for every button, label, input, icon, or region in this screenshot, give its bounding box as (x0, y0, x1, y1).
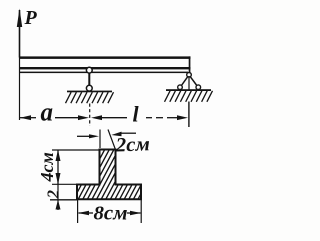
right support triangle (180, 77, 198, 88)
beam middle line (19, 67, 191, 69)
left support lower pin circle (86, 85, 92, 91)
stem width dim 2cm: left arrow (77, 135, 91, 137)
flange width dim 8cm: extension lines (77, 200, 79, 223)
beam right end edge (189, 56, 191, 74)
flange thickness dim 2: lower outside arrow (57, 199, 59, 210)
height dim 4cm: dimension line with arrows (57, 150, 59, 184)
stem width dim 2cm: right arrow (121, 132, 136, 134)
right support centre extension line (188, 76, 190, 91)
left support ground hatching (66, 92, 114, 103)
flange thickness dim 2: dimension line (57, 185, 59, 200)
svg-text:2см: 2см (114, 133, 150, 156)
svg-text:4см: 4см (37, 152, 57, 182)
mid extension line (under left support, dashed) (89, 104, 91, 127)
left support pin circle (86, 67, 92, 73)
svg-text:2: 2 (44, 190, 63, 199)
stem width dim 2cm: left extension line (99, 130, 101, 149)
svg-text:P: P (24, 7, 38, 29)
left support ground line (67, 91, 112, 93)
force P arrow (17, 9, 22, 58)
right support ground line (166, 89, 211, 91)
svg-text:l: l (133, 102, 140, 127)
dimension l: line and arrows (99, 117, 178, 119)
svg-text:a: a (41, 98, 54, 127)
stem width dim 2cm: slanted right extension line (108, 130, 116, 151)
right support roller circles (178, 85, 183, 90)
right support ground hatching (165, 91, 213, 102)
dimension a: line and arrows (20, 117, 79, 119)
left support link (88, 73, 90, 86)
right support apex pin circle (187, 73, 192, 78)
flange top extension line (52, 183, 77, 185)
T cross-section outline (77, 150, 141, 200)
flange bottom extension line (50, 199, 77, 201)
height dim 4cm: top extension line (52, 149, 100, 151)
flange width dim 8cm: dimension line with arrows (79, 212, 94, 214)
left extension line (under P) (19, 58, 21, 121)
svg-text:8см: 8см (94, 203, 128, 225)
beam bottom line (19, 72, 188, 74)
beam top line (19, 56, 191, 59)
